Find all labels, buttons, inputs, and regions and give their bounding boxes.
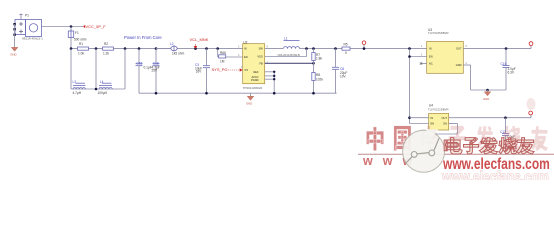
- net label SYS_PG: [212, 66, 244, 72]
- svg-text:P1: P1: [25, 14, 29, 18]
- svg-text:500 ohm: 500 ohm: [74, 38, 87, 42]
- svg-text:TLV70245DBVR: TLV70245DBVR: [428, 31, 448, 35]
- resistor R5 output: [342, 43, 427, 55]
- ldo U4 TLV70212: [428, 104, 449, 131]
- svg-text:VCL_MNK: VCL_MNK: [190, 37, 209, 42]
- svg-text:VCC_5P_F: VCC_5P_F: [86, 24, 107, 29]
- node A junction: [70, 25, 73, 28]
- wire en branch: [409, 49, 411, 124]
- watermark text dianzifashaoyou tile B: [444, 138, 462, 154]
- watermark faint upper fragment: [527, 98, 536, 110]
- wire fuse to rail: [70, 38, 72, 49]
- svg-text:1.0k: 1.0k: [78, 52, 84, 56]
- svg-text:TLV70212DBVR: TLV70212DBVR: [428, 108, 448, 112]
- wire pads to gnd: [14, 24, 16, 47]
- wire node down to fuse: [70, 27, 72, 32]
- power flag VOUT3: [529, 111, 533, 118]
- ldo U3 TLV70245: [421, 28, 468, 73]
- capacitor C7: [152, 49, 160, 94]
- svg-text:EN: EN: [244, 55, 248, 59]
- watermark logo circle: [403, 130, 445, 172]
- inductor L1: [278, 37, 300, 58]
- inductor L3: [73, 80, 86, 95]
- junction dots on rail: [70, 47, 73, 50]
- wire U4 out: [449, 117, 531, 119]
- svg-text:EN: EN: [431, 122, 435, 126]
- svg-text:IN: IN: [429, 46, 432, 50]
- resistor R7 feedback top: [312, 49, 323, 94]
- svg-text:GND: GND: [246, 102, 252, 106]
- svg-text:R8: R8: [316, 73, 320, 77]
- svg-text:OUT: OUT: [456, 46, 462, 50]
- wire u4 gnd path: [449, 123, 458, 125]
- net label VCC_5P_F: [83, 24, 106, 29]
- resistor R66 EN divider: [218, 49, 243, 64]
- svg-text:16V: 16V: [196, 70, 203, 74]
- svg-text:OUT: OUT: [442, 116, 448, 120]
- svg-text:SYS_PG: SYS_PG: [212, 67, 228, 72]
- svg-text:IN: IN: [244, 47, 247, 51]
- svg-text:102k: 102k: [316, 78, 323, 82]
- svg-text:SW: SW: [259, 47, 264, 51]
- svg-text:PGND: PGND: [251, 78, 259, 82]
- svg-text:GN: GN: [443, 122, 447, 126]
- svg-text:1M: 1M: [220, 60, 225, 64]
- watermark underline: [358, 153, 554, 155]
- svg-text:GND: GND: [10, 53, 16, 57]
- svg-text:1k5 ohm: 1k5 ohm: [172, 52, 185, 56]
- svg-text:FB: FB: [259, 61, 263, 65]
- svg-text:25V: 25V: [152, 69, 159, 73]
- node C junction u4 in: [408, 116, 411, 119]
- svg-text:R1: R1: [79, 42, 83, 46]
- svg-text:P3: P3: [245, 68, 249, 72]
- resistor R1: [78, 42, 89, 55]
- ground GND2: [246, 93, 254, 105]
- svg-text:NC: NC: [429, 62, 433, 66]
- wire u4 in: [410, 117, 429, 119]
- svg-text:L1: L1: [284, 37, 288, 41]
- svg-text:IN: IN: [431, 116, 434, 120]
- ground GND3: [483, 90, 491, 101]
- power flag VOUT2: [529, 42, 533, 49]
- wire input top rail: [71, 48, 243, 50]
- svg-text:R66: R66: [220, 51, 226, 55]
- wire U3 out: [463, 48, 531, 50]
- svg-text:GND: GND: [483, 97, 489, 101]
- wire SW to L1: [265, 48, 283, 50]
- svg-text:0: 0: [345, 51, 347, 55]
- inductor L4: [98, 80, 113, 95]
- svg-text:www.elecfans.com: www.elecfans.com: [441, 167, 549, 180]
- watermark row zhongguodianzifashaoyou tile A: [366, 127, 383, 151]
- svg-text:1.2k: 1.2k: [103, 52, 109, 56]
- svg-text:DEF: DEF: [253, 70, 259, 74]
- svg-text:GND: GND: [456, 63, 462, 67]
- svg-text:6.3V: 6.3V: [508, 71, 515, 75]
- watermark: [358, 98, 554, 185]
- svg-text:Power In From Core: Power In From Core: [124, 35, 162, 40]
- wire FB: [265, 62, 314, 64]
- svg-text:4.7µH: 4.7µH: [73, 91, 82, 95]
- svg-text:R2: R2: [104, 42, 108, 46]
- ground GND1: [10, 47, 18, 56]
- resistor R2: [103, 42, 114, 55]
- svg-text:et: et: [534, 139, 544, 150]
- svg-text:10V: 10V: [340, 74, 347, 78]
- wire U3 gnd path: [463, 64, 470, 66]
- svg-text:F1: F1: [75, 31, 79, 35]
- svg-text:C15: C15: [136, 61, 142, 65]
- node B junction en branch: [408, 47, 411, 50]
- svg-text:NE11R-45NLS-1: NE11R-45NLS-1: [22, 37, 43, 41]
- pins DEF AVCC PGND to gnd: [265, 71, 275, 73]
- capacitor C3: [195, 49, 210, 94]
- capacitor C17: [500, 118, 515, 148]
- power flag VOUT1: [362, 41, 366, 50]
- net label VCC_MAIN: [190, 37, 209, 49]
- wire P1 to node: [42, 26, 84, 28]
- svg-text:1.8k: 1.8k: [316, 57, 322, 61]
- svg-text:TPS62130RGR: TPS62130RGR: [243, 86, 262, 90]
- ground GND4: [429, 135, 437, 144]
- wire bottom loop rail: [71, 88, 125, 90]
- connector P1: [13, 14, 43, 41]
- svg-text:EN: EN: [429, 55, 433, 59]
- resistor R8 feedback bottom: [312, 73, 324, 82]
- svg-text:R5: R5: [344, 43, 348, 47]
- ferrite bead L2: [156, 42, 185, 56]
- svg-text:100µH: 100µH: [98, 91, 108, 95]
- regulator U2 TPS62130: [238, 40, 269, 89]
- nc stub with x: [420, 62, 427, 64]
- wire L1 to output node: [300, 48, 343, 50]
- capacitor C16: [501, 49, 516, 90]
- svg-text:L2: L2: [170, 42, 174, 46]
- wire u4 en: [410, 123, 429, 125]
- fuse F1: [68, 30, 86, 42]
- wire VOS: [265, 56, 307, 58]
- svg-text:C16: C16: [501, 62, 507, 66]
- capacitor C8 output: [332, 49, 347, 94]
- ground rail: [139, 92, 337, 94]
- svg-text:VOS: VOS: [257, 55, 263, 59]
- capacitor C5: [136, 49, 152, 94]
- wire left loop verticals: [70, 49, 72, 89]
